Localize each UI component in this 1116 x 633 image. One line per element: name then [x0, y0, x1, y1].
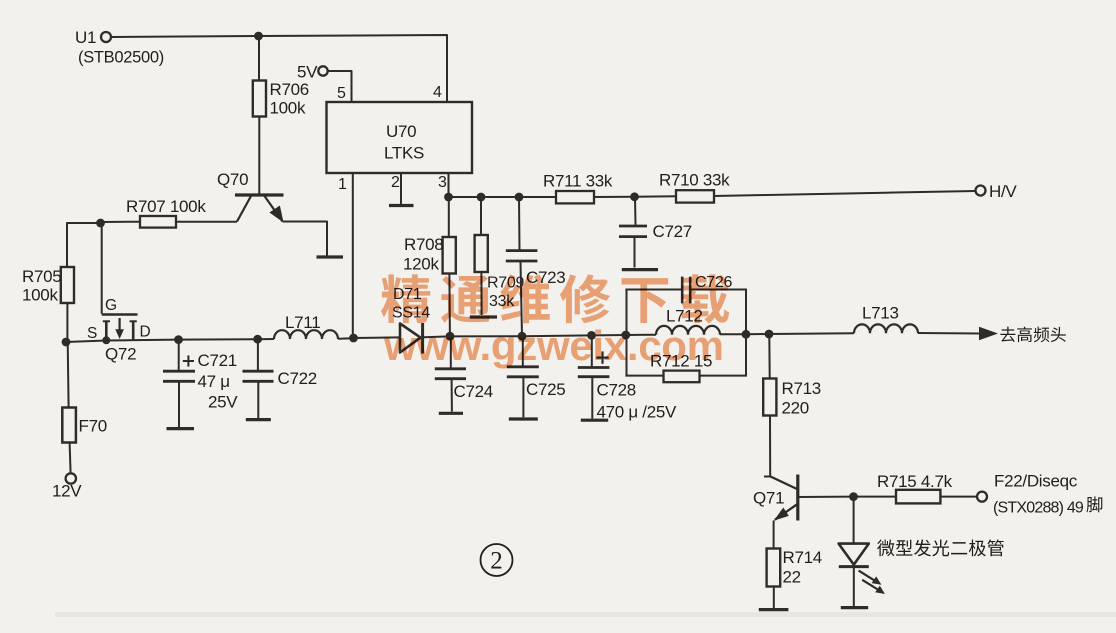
pin 2 label [391, 174, 400, 191]
svg-text:2: 2 [391, 174, 400, 191]
svg-text:R710 33k: R710 33k [659, 171, 730, 190]
wire R709 bottom lead [480, 272, 482, 315]
svg-text:C721: C721 [198, 351, 237, 370]
ground R714 [759, 608, 789, 611]
svg-text:F70: F70 [79, 417, 107, 436]
wire R709 top lead [480, 197, 482, 235]
svg-text:100k: 100k [22, 286, 58, 305]
label D [140, 324, 151, 341]
terminal U1 input [75, 28, 111, 47]
label STX0288 49 pin [993, 496, 1102, 516]
label R715 value [877, 472, 953, 491]
label R711 value [543, 172, 613, 191]
svg-text:R711 33k: R711 33k [543, 172, 613, 191]
label to-tuner (Chinese) [1000, 327, 1065, 343]
svg-text:C722: C722 [278, 369, 317, 388]
label C721 value [198, 351, 239, 412]
wire C721 to C722 [179, 338, 258, 340]
svg-text:100k: 100k [270, 99, 306, 118]
wire tank left to coil [627, 334, 657, 336]
figure number 2 [481, 544, 513, 576]
capacitor C728 [578, 368, 610, 377]
wire C722 top lead [257, 339, 259, 370]
label (STB02500) [78, 49, 164, 67]
svg-text:5V: 5V [297, 63, 318, 82]
capacitor C725 [507, 367, 539, 377]
pin 3 label [438, 174, 447, 191]
wire node to R715 [854, 496, 897, 498]
svg-text:22: 22 [783, 568, 801, 587]
scan streak [55, 612, 1116, 617]
node junction C727 [630, 192, 639, 201]
svg-text:www.gzweix.com: www.gzweix.com [383, 322, 724, 369]
ground LED [841, 606, 868, 609]
wire 12V node to F70 [67, 342, 70, 408]
svg-text:(STX0288) 49: (STX0288) 49 [993, 500, 1084, 517]
svg-text:R706: R706 [270, 80, 309, 99]
label Q71 [753, 489, 784, 508]
pin 1 label [338, 176, 347, 193]
transistor Q70 base bar [235, 193, 284, 196]
resistor R706 [253, 81, 266, 117]
node junction U1/R706 [254, 32, 263, 41]
wire D71 to R708 node [424, 335, 450, 338]
label C722 [278, 369, 317, 388]
arrow to tuner [979, 327, 998, 341]
svg-text:Q71: Q71 [753, 489, 784, 508]
svg-text:H/V: H/V [989, 182, 1017, 201]
label F22/Diseqc [994, 472, 1078, 491]
label C728 value [597, 381, 678, 422]
wire R713 top lead [768, 334, 770, 379]
svg-text:D: D [140, 324, 151, 341]
wire C725 bottom lead [522, 378, 524, 417]
resistor R707 [140, 216, 176, 228]
node junction pin1/output [349, 334, 358, 343]
capacitor C721 [163, 371, 195, 381]
wire R711 to C727 node [594, 196, 635, 198]
wire C723 top lead [518, 197, 521, 250]
wire rail C724 to C725 [450, 335, 522, 337]
label G [105, 297, 117, 314]
node junction C723 top [515, 193, 524, 202]
svg-text:C727: C727 [653, 222, 692, 241]
svg-text:R708: R708 [404, 235, 443, 254]
label C726 [695, 274, 732, 291]
label R707 value [126, 197, 206, 216]
node junction R707/R705/gate [96, 219, 105, 228]
label D71 value [392, 286, 430, 322]
ground C721 [167, 427, 195, 430]
wire R713 to Q71 collector [764, 416, 772, 477]
terminal F22/Diseqc [977, 492, 987, 502]
resistor R709 [475, 235, 488, 272]
label LED (Chinese) [877, 539, 1004, 556]
transistor Q72 gate bar [102, 313, 138, 316]
capacitor C726 [682, 277, 690, 304]
transistor Q70 collector diagonal [237, 196, 251, 222]
wire tank top right [692, 289, 748, 291]
wire LED anode lead [853, 497, 855, 543]
svg-text:L711: L711 [285, 313, 320, 332]
label C723 [526, 268, 565, 287]
node junction 12V/R705 [62, 338, 71, 347]
wire L711 to pin1 node [338, 337, 353, 340]
label R713 value [782, 379, 821, 418]
wire tank to R713 node [746, 333, 769, 335]
wire L713 to arrow [918, 332, 980, 335]
wire C727 top lead [634, 197, 637, 225]
wire C723 bottom lead [521, 262, 523, 336]
svg-text:R713: R713 [782, 379, 821, 398]
watermark [381, 274, 729, 369]
svg-text:R707 100k: R707 100k [126, 197, 206, 216]
resistor R711 [556, 191, 594, 203]
wire R710 to HV [714, 191, 976, 196]
wire tank right riser [745, 290, 747, 376]
ground C725 [509, 417, 538, 420]
label L713 [862, 304, 899, 323]
wire C721 bottom lead [178, 383, 180, 428]
label Q72 [105, 345, 136, 364]
wire pin 3 [448, 173, 450, 197]
svg-text:R715 4.7k: R715 4.7k [877, 472, 953, 491]
wire C721 top lead [178, 340, 180, 370]
resistor R714 [767, 549, 781, 587]
wire tank bottom left [625, 375, 663, 377]
svg-text:C728: C728 [597, 381, 636, 400]
pin 4 label [433, 84, 442, 101]
transistor Q71 base bar [796, 475, 799, 521]
wire rail C728 to tank [592, 334, 627, 336]
node junction R709 top [477, 193, 486, 202]
wire F70 to 12V terminal [70, 443, 71, 474]
svg-text:25V: 25V [208, 393, 238, 412]
svg-text:3: 3 [438, 174, 447, 191]
svg-text:470 μ /25V: 470 μ /25V [597, 403, 678, 422]
wire gate lead [101, 223, 103, 314]
wire node to R707 [101, 221, 141, 223]
svg-text:12V: 12V [52, 482, 82, 501]
wire C724 bottom lead [451, 380, 453, 412]
wire LED cathode lead [853, 568, 855, 606]
node junction C721 [174, 335, 183, 344]
wire R707 to Q70 [176, 221, 237, 223]
wire R714 bottom lead [773, 587, 775, 609]
svg-text:5: 5 [337, 85, 346, 102]
ground C727 [622, 268, 658, 271]
ground pin 2 [389, 204, 414, 207]
transistor Q71 emitter diagonal [774, 505, 797, 521]
wire tank bottom right [700, 375, 748, 377]
resistor R712 [664, 371, 700, 383]
wire R708 to output rail [448, 274, 451, 337]
resistor R710 [676, 190, 714, 202]
wire R713 node to L713 [769, 332, 854, 335]
ground Q70 emitter [317, 255, 344, 258]
label R708 value [403, 235, 443, 274]
wire C722 to L711 [258, 338, 274, 340]
wire C725 top lead [522, 336, 524, 366]
label R712 value [650, 352, 712, 371]
wire R706 top lead [258, 36, 260, 81]
wire C728 top lead [591, 335, 593, 366]
pin 1 wire down to output node [352, 173, 354, 338]
resistor R705 [61, 267, 74, 303]
svg-text:C725: C725 [526, 380, 565, 399]
wire 5V to pin 5 [328, 71, 352, 102]
wire node to R710 [635, 195, 677, 198]
node junction pin3 [444, 193, 453, 202]
svg-text:F22/Diseqc: F22/Diseqc [994, 472, 1078, 491]
LED D72 micro [839, 544, 869, 567]
node junction C725 [518, 332, 527, 341]
ground R709 [470, 315, 497, 318]
LED light arrows [859, 571, 885, 594]
transistor Q72 arrow [115, 318, 124, 339]
label R705 value [22, 267, 61, 305]
svg-text:L713: L713 [862, 304, 899, 323]
node junction tank left [621, 331, 630, 340]
transistor Q71 collector diagonal [771, 477, 798, 490]
node junction C724 [446, 332, 455, 341]
svg-text:Q70: Q70 [217, 170, 248, 189]
svg-text:(STB02500): (STB02500) [78, 49, 164, 67]
node junction R713 [765, 330, 774, 339]
wire C727 bottom lead [634, 238, 636, 268]
wire node to D71 [354, 336, 400, 339]
transistor Q72 drain tick [130, 321, 137, 340]
resistor R708 [443, 237, 456, 274]
inductor L711 [274, 330, 338, 339]
capacitor C724 [435, 369, 466, 379]
wire R706 to Q70 base [258, 117, 260, 194]
svg-text:1: 1 [338, 176, 347, 193]
node junction tank right [742, 330, 751, 339]
svg-text:Q72: Q72 [105, 345, 136, 364]
label C724 [454, 382, 493, 401]
inductor L712 [656, 326, 720, 335]
svg-text:120k: 120k [403, 255, 439, 274]
svg-text:U70: U70 [386, 122, 416, 141]
wire R715 to F22 terminal [940, 496, 977, 498]
svg-text:C724: C724 [454, 382, 493, 401]
capacitor C722 [243, 371, 274, 381]
wire R705 to 12V node [66, 303, 68, 342]
diode D71 [400, 323, 423, 354]
svg-text:R714: R714 [783, 548, 822, 567]
label R710 value [659, 171, 730, 190]
wire U1 to pin4 corner [112, 35, 448, 102]
svg-text:U1: U1 [75, 28, 96, 47]
svg-text:S: S [87, 325, 97, 342]
transistor Q72 source tick [103, 321, 110, 340]
svg-text:G: G [105, 297, 117, 314]
pin 5 label [337, 85, 346, 102]
capacitor C727 [619, 226, 647, 237]
wire coil to tank right [720, 333, 746, 335]
fuse F70 [62, 408, 107, 443]
capacitor C721 plus sign [183, 355, 194, 366]
node junction C728 [587, 331, 596, 340]
ground C728 [581, 419, 608, 422]
wire C722 bottom lead [257, 383, 259, 419]
wire Q70 emitter to ground [283, 222, 328, 256]
IC U70 LTKS [327, 102, 473, 173]
label C727 [653, 222, 692, 241]
label Q70 [217, 170, 248, 189]
label L711 [285, 313, 320, 332]
node junction source [102, 336, 110, 344]
resistor R715 [896, 490, 940, 504]
wire tank left riser [626, 290, 628, 376]
label S [87, 325, 97, 342]
terminal H/V [976, 182, 1018, 201]
wire node to R705 [67, 223, 101, 267]
capacitor C728 plus sign [596, 351, 608, 363]
ground C724 [439, 412, 463, 415]
svg-text:2: 2 [490, 548, 503, 575]
label R706 value [270, 80, 309, 118]
terminal 12V [52, 473, 82, 500]
wire Q71 emitter to R714 [773, 521, 775, 549]
svg-text:47 μ: 47 μ [198, 372, 230, 391]
wire C724 top lead [450, 336, 452, 368]
inductor L713 [854, 324, 918, 333]
terminal 5V [297, 63, 328, 82]
label C725 [526, 380, 565, 399]
resistor R713 [763, 379, 776, 416]
svg-text:220: 220 [782, 399, 809, 418]
wire rail C725 to C728 [522, 334, 592, 337]
svg-text:LTKS: LTKS [384, 144, 424, 163]
wire pin 2 [400, 173, 402, 204]
wire C728 bottom lead [591, 378, 593, 419]
capacitor C723 [506, 251, 538, 261]
wire R708 top lead [448, 197, 450, 237]
wire Q71 base to node [798, 496, 854, 498]
label L712 [666, 307, 703, 326]
label R709 value [487, 275, 524, 311]
svg-text:R705: R705 [22, 267, 61, 286]
svg-text:4: 4 [433, 84, 442, 101]
ground C722 [246, 418, 271, 421]
node junction base/LED [849, 492, 858, 501]
label R714 value [783, 548, 822, 587]
node junction C722 [253, 335, 262, 344]
wire tank top left [625, 289, 681, 291]
wire pin3 rail [449, 196, 557, 198]
transistor Q70 emitter diagonal [265, 196, 284, 223]
wire 12V node to C721 [66, 340, 179, 342]
